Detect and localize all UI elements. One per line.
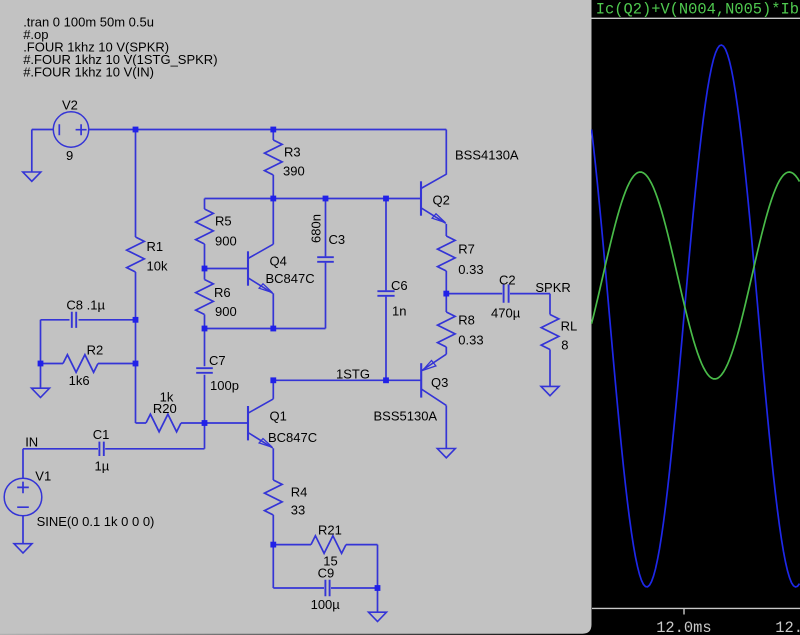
svg-text:390: 390 xyxy=(283,164,305,179)
svg-text:R8: R8 xyxy=(458,313,475,328)
svg-text:Q2: Q2 xyxy=(433,193,450,208)
svg-text:R5: R5 xyxy=(215,214,232,229)
svg-text:100µ: 100µ xyxy=(311,597,341,612)
svg-text:SINE(0 0.1 1k 0 0 0): SINE(0 0.1 1k 0 0 0) xyxy=(37,514,155,529)
svg-text:BSS5130A: BSS5130A xyxy=(374,409,438,424)
svg-text:R21: R21 xyxy=(318,523,342,538)
svg-text:R20: R20 xyxy=(153,401,177,416)
svg-text:1STG: 1STG xyxy=(336,367,370,382)
svg-text:1k6: 1k6 xyxy=(69,373,90,388)
svg-text:C8 .1µ: C8 .1µ xyxy=(66,298,105,313)
svg-text:C3: C3 xyxy=(329,232,346,247)
svg-text:0.33: 0.33 xyxy=(458,262,483,277)
svg-text:IN: IN xyxy=(25,435,38,450)
svg-text:470µ: 470µ xyxy=(491,306,521,321)
svg-text:680n: 680n xyxy=(309,214,324,243)
svg-text:V2: V2 xyxy=(62,98,78,113)
svg-text:Q3: Q3 xyxy=(431,375,448,390)
svg-text:0.33: 0.33 xyxy=(458,333,483,348)
svg-text:Ic(Q2)+V(N004,N005)*Ib: Ic(Q2)+V(N004,N005)*Ib xyxy=(596,1,799,19)
svg-text:C6: C6 xyxy=(391,278,408,293)
svg-text:BC847C: BC847C xyxy=(268,430,317,445)
svg-text:100p: 100p xyxy=(210,378,239,393)
svg-text:900: 900 xyxy=(215,234,237,249)
svg-text:33: 33 xyxy=(291,503,305,518)
svg-text:8: 8 xyxy=(561,338,568,353)
svg-text:9: 9 xyxy=(66,148,73,163)
svg-text:1n: 1n xyxy=(392,304,406,319)
svg-text:10k: 10k xyxy=(147,259,168,274)
svg-text:Q1: Q1 xyxy=(270,409,287,424)
svg-text:SPKR: SPKR xyxy=(535,280,570,295)
svg-text:R4: R4 xyxy=(291,485,308,500)
svg-text:12.: 12. xyxy=(775,619,800,635)
svg-text:#.FOUR 1khz 10 V(IN): #.FOUR 1khz 10 V(IN) xyxy=(23,65,154,80)
svg-text:900: 900 xyxy=(215,304,237,319)
svg-text:1µ: 1µ xyxy=(95,459,110,474)
svg-text:R6: R6 xyxy=(214,285,231,300)
svg-text:R7: R7 xyxy=(458,242,475,257)
svg-text:C2: C2 xyxy=(499,273,516,288)
svg-text:RL: RL xyxy=(561,319,578,334)
svg-text:BSS4130A: BSS4130A xyxy=(455,148,519,163)
svg-text:12.0ms: 12.0ms xyxy=(656,619,711,635)
svg-text:C9: C9 xyxy=(318,566,335,581)
svg-text:V1: V1 xyxy=(35,469,51,484)
svg-text:C7: C7 xyxy=(209,353,226,368)
svg-text:R3: R3 xyxy=(284,145,301,160)
svg-text:C1: C1 xyxy=(93,427,110,442)
svg-text:R2: R2 xyxy=(87,343,104,358)
svg-text:R1: R1 xyxy=(147,239,164,254)
svg-text:Q4: Q4 xyxy=(270,254,287,269)
svg-text:BC847C: BC847C xyxy=(266,271,315,286)
